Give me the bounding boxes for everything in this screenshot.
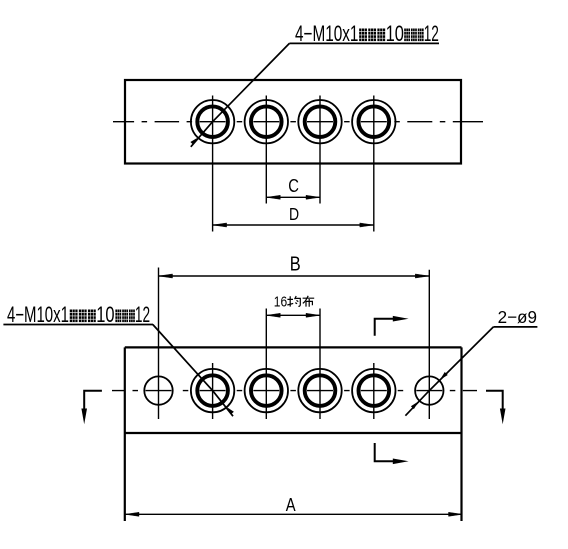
svg-text:12: 12 [135, 302, 150, 327]
svg-text:D: D [289, 206, 299, 225]
hole T1 vertical centerline / D extension line [212, 96, 214, 232]
hole P1 (left ø9) vertical centerline / B extension [158, 268, 160, 420]
bottom view top edge [125, 346, 462, 348]
bottom view internal divider line [125, 432, 462, 434]
svg-text:4−M10x1: 4−M10x1 [7, 302, 69, 327]
svg-text:A: A [286, 494, 297, 515]
drilled hole P1 (ø9 left) [144, 376, 172, 404]
leader arrowhead at hole P2 upper-right edge [440, 372, 448, 380]
top thread note text 4-M10x1 (thread depth 10, hole depth 12) [295, 21, 439, 47]
tapped hole B1 [191, 369, 234, 412]
svg-text:2−ø9: 2−ø9 [498, 307, 537, 327]
section arrow top-right (right) [375, 319, 394, 336]
dimension D line with arrows [213, 223, 374, 227]
tapped hole B4 [352, 369, 395, 412]
hole B1 vertical centerline [212, 363, 214, 419]
hole P2 (right ø9) vertical centerline / B extension [428, 270, 430, 419]
hole T3 vertical centerline / C extension line [319, 96, 321, 204]
bottom thread note underline [3, 324, 153, 326]
hole T2 vertical centerline / C extension line [265, 96, 267, 204]
tapped hole T1 [191, 100, 234, 143]
hole B4 vertical centerline [373, 363, 375, 419]
tapped hole B2 [245, 369, 288, 412]
hole B2 vertical centerline / 16 extension [265, 309, 267, 420]
svg-text:10: 10 [96, 303, 114, 328]
leader line to tapped hole T1 [191, 43, 290, 146]
section arrow bottom-right (down) [486, 391, 503, 411]
svg-text:10: 10 [386, 22, 404, 47]
dimension B line with arrows [159, 274, 430, 278]
leader arrowhead at hole P2 lower-left edge [411, 401, 419, 409]
section arrow left (down) [84, 391, 102, 411]
bottom view left edge [124, 347, 126, 521]
2-ø9 leader line to hole P2 [405, 327, 493, 416]
svg-text:B: B [290, 252, 301, 275]
drilled hole P2 (ø9 right) [415, 376, 443, 404]
svg-text:16: 16 [274, 293, 287, 309]
bottom thread note text 4-M10x1 (thread depth 10, hole depth 12) [7, 302, 150, 328]
top view outline rectangle [125, 80, 461, 164]
svg-text:4−M10x1: 4−M10x1 [295, 22, 358, 46]
bottom thread note leader line to tapped hole B1 [153, 325, 233, 417]
svg-text:12: 12 [424, 21, 439, 46]
tapped hole T4 [352, 100, 395, 143]
leader arrowhead at hole B1 edge [227, 408, 233, 415]
svg-text:C: C [288, 176, 299, 197]
2-ø9 note underline [493, 326, 537, 328]
leader arrowhead at hole T1 edge [190, 138, 197, 145]
dimension A line with arrows [125, 512, 463, 516]
dimension C line with arrows [266, 195, 320, 199]
drawn CJK glyph BU (布) [303, 296, 315, 307]
dimension 16 (evenly spaced) line with arrows [266, 313, 320, 317]
tapped hole T3 [298, 100, 341, 143]
leader underline for top thread note [289, 42, 439, 44]
hole T4 vertical centerline / D extension line [373, 96, 375, 232]
tapped hole T2 [245, 100, 288, 143]
bottom view right edge [460, 347, 462, 521]
top view horizontal dashed centerline [113, 121, 483, 123]
section arrow bottom-middle (right) [375, 443, 394, 461]
bottom view horizontal dashed centerline [112, 390, 477, 392]
drawn CJK glyph JUN (均) [287, 296, 300, 307]
tapped hole B3 [298, 369, 341, 412]
hole B3 vertical centerline / 16 extension [319, 309, 321, 420]
